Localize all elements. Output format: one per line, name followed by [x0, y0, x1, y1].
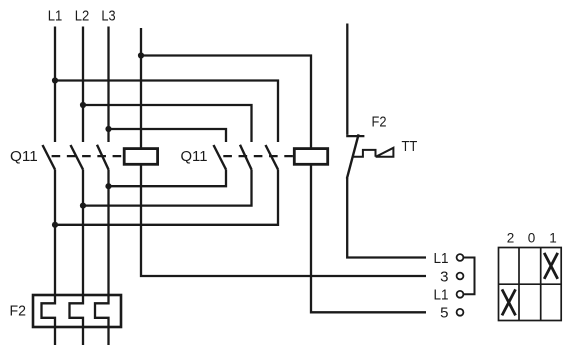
- junction L1 branch: [52, 77, 58, 83]
- wire branch to coil Q11.2: [141, 56, 311, 149]
- svg-text:1: 1: [549, 231, 557, 246]
- wire coil feed drop: [140, 28, 142, 148]
- contact blade Q11.2 pole 3: [266, 145, 279, 170]
- switch table row line: [499, 283, 562, 285]
- contact blade Q11.2 pole 2: [240, 145, 252, 170]
- junction L3 branch: [105, 126, 111, 132]
- wire pole2 lower with heater F2 element 2: [70, 170, 84, 346]
- TT trip triangle: [376, 148, 394, 157]
- F2 contact fixed tick: [346, 135, 364, 137]
- wire pole1 lower with heater F2 element 1: [42, 170, 56, 346]
- switch table frame: [499, 248, 562, 321]
- terminal circle 3: [457, 273, 464, 280]
- svg-text:L2: L2: [75, 8, 90, 25]
- wire F2 contact top: [346, 24, 348, 135]
- svg-text:Q11: Q11: [181, 148, 208, 165]
- svg-text:L1: L1: [434, 250, 449, 267]
- wire branch L2 to second contactor pole 2: [83, 105, 252, 142]
- bracket link L1-L1: [464, 258, 475, 295]
- terminal circle L1 upper: [457, 254, 464, 261]
- overload relay F2 box: [33, 295, 121, 327]
- svg-text:L1: L1: [48, 8, 63, 25]
- F2 contact blade: [347, 134, 359, 178]
- wire L2 drop: [82, 27, 84, 143]
- wire pole3 lower with heater F2 element 3: [95, 170, 109, 346]
- junction coil feed: [138, 52, 144, 58]
- svg-text:F2: F2: [10, 303, 27, 320]
- svg-text:L1: L1: [434, 287, 449, 304]
- junction pole3 lower: [105, 183, 111, 189]
- coil Q11.1: [124, 149, 157, 165]
- linkage dashes Q11.1: [52, 155, 123, 157]
- TT trip linkage step: [353, 150, 376, 157]
- svg-text:L3: L3: [101, 8, 115, 25]
- terminal circle 5: [457, 309, 464, 316]
- wire coil Q11.2 to terminal 5: [311, 164, 426, 312]
- wire coil Q11.1 to terminal 3: [141, 164, 426, 276]
- wire Q11.2 pole2 output: [83, 170, 252, 206]
- contact blade Q11.1 pole 2: [71, 145, 84, 170]
- wire Q11.2 pole1 output: [109, 170, 227, 187]
- table X mark position 1: [544, 253, 558, 279]
- svg-text:5: 5: [440, 305, 448, 322]
- svg-text:TT: TT: [402, 138, 418, 155]
- junction pole2 lower: [80, 203, 86, 209]
- wire L1 drop: [54, 27, 56, 143]
- svg-text:F2: F2: [372, 114, 387, 131]
- table X mark position 2: [502, 289, 516, 315]
- svg-text:0: 0: [528, 231, 536, 246]
- switch table column line 1: [518, 248, 520, 321]
- contact blade Q11.1 pole 1: [43, 145, 56, 170]
- wire branch L3 to second contactor pole 1: [109, 129, 227, 142]
- junction L2 branch: [80, 102, 86, 108]
- wire branch L1 to second contactor pole 3: [55, 81, 278, 143]
- junction pole1 lower: [52, 222, 58, 228]
- wire F2 contact to terminal L1: [347, 178, 426, 258]
- wire L3 drop: [107, 27, 109, 143]
- svg-text:3: 3: [440, 268, 448, 285]
- coil Q11.2: [294, 149, 327, 165]
- svg-text:2: 2: [507, 231, 515, 246]
- contact blade Q11.1 pole 3: [97, 145, 109, 170]
- switch table column line 2: [540, 248, 542, 321]
- wire Q11.2 pole3 output: [55, 170, 278, 225]
- terminal circle L1 lower: [457, 291, 464, 298]
- linkage dashes Q11.2: [223, 155, 293, 157]
- svg-text:Q11: Q11: [10, 148, 38, 165]
- contact blade Q11.2 pole 1: [214, 145, 227, 170]
